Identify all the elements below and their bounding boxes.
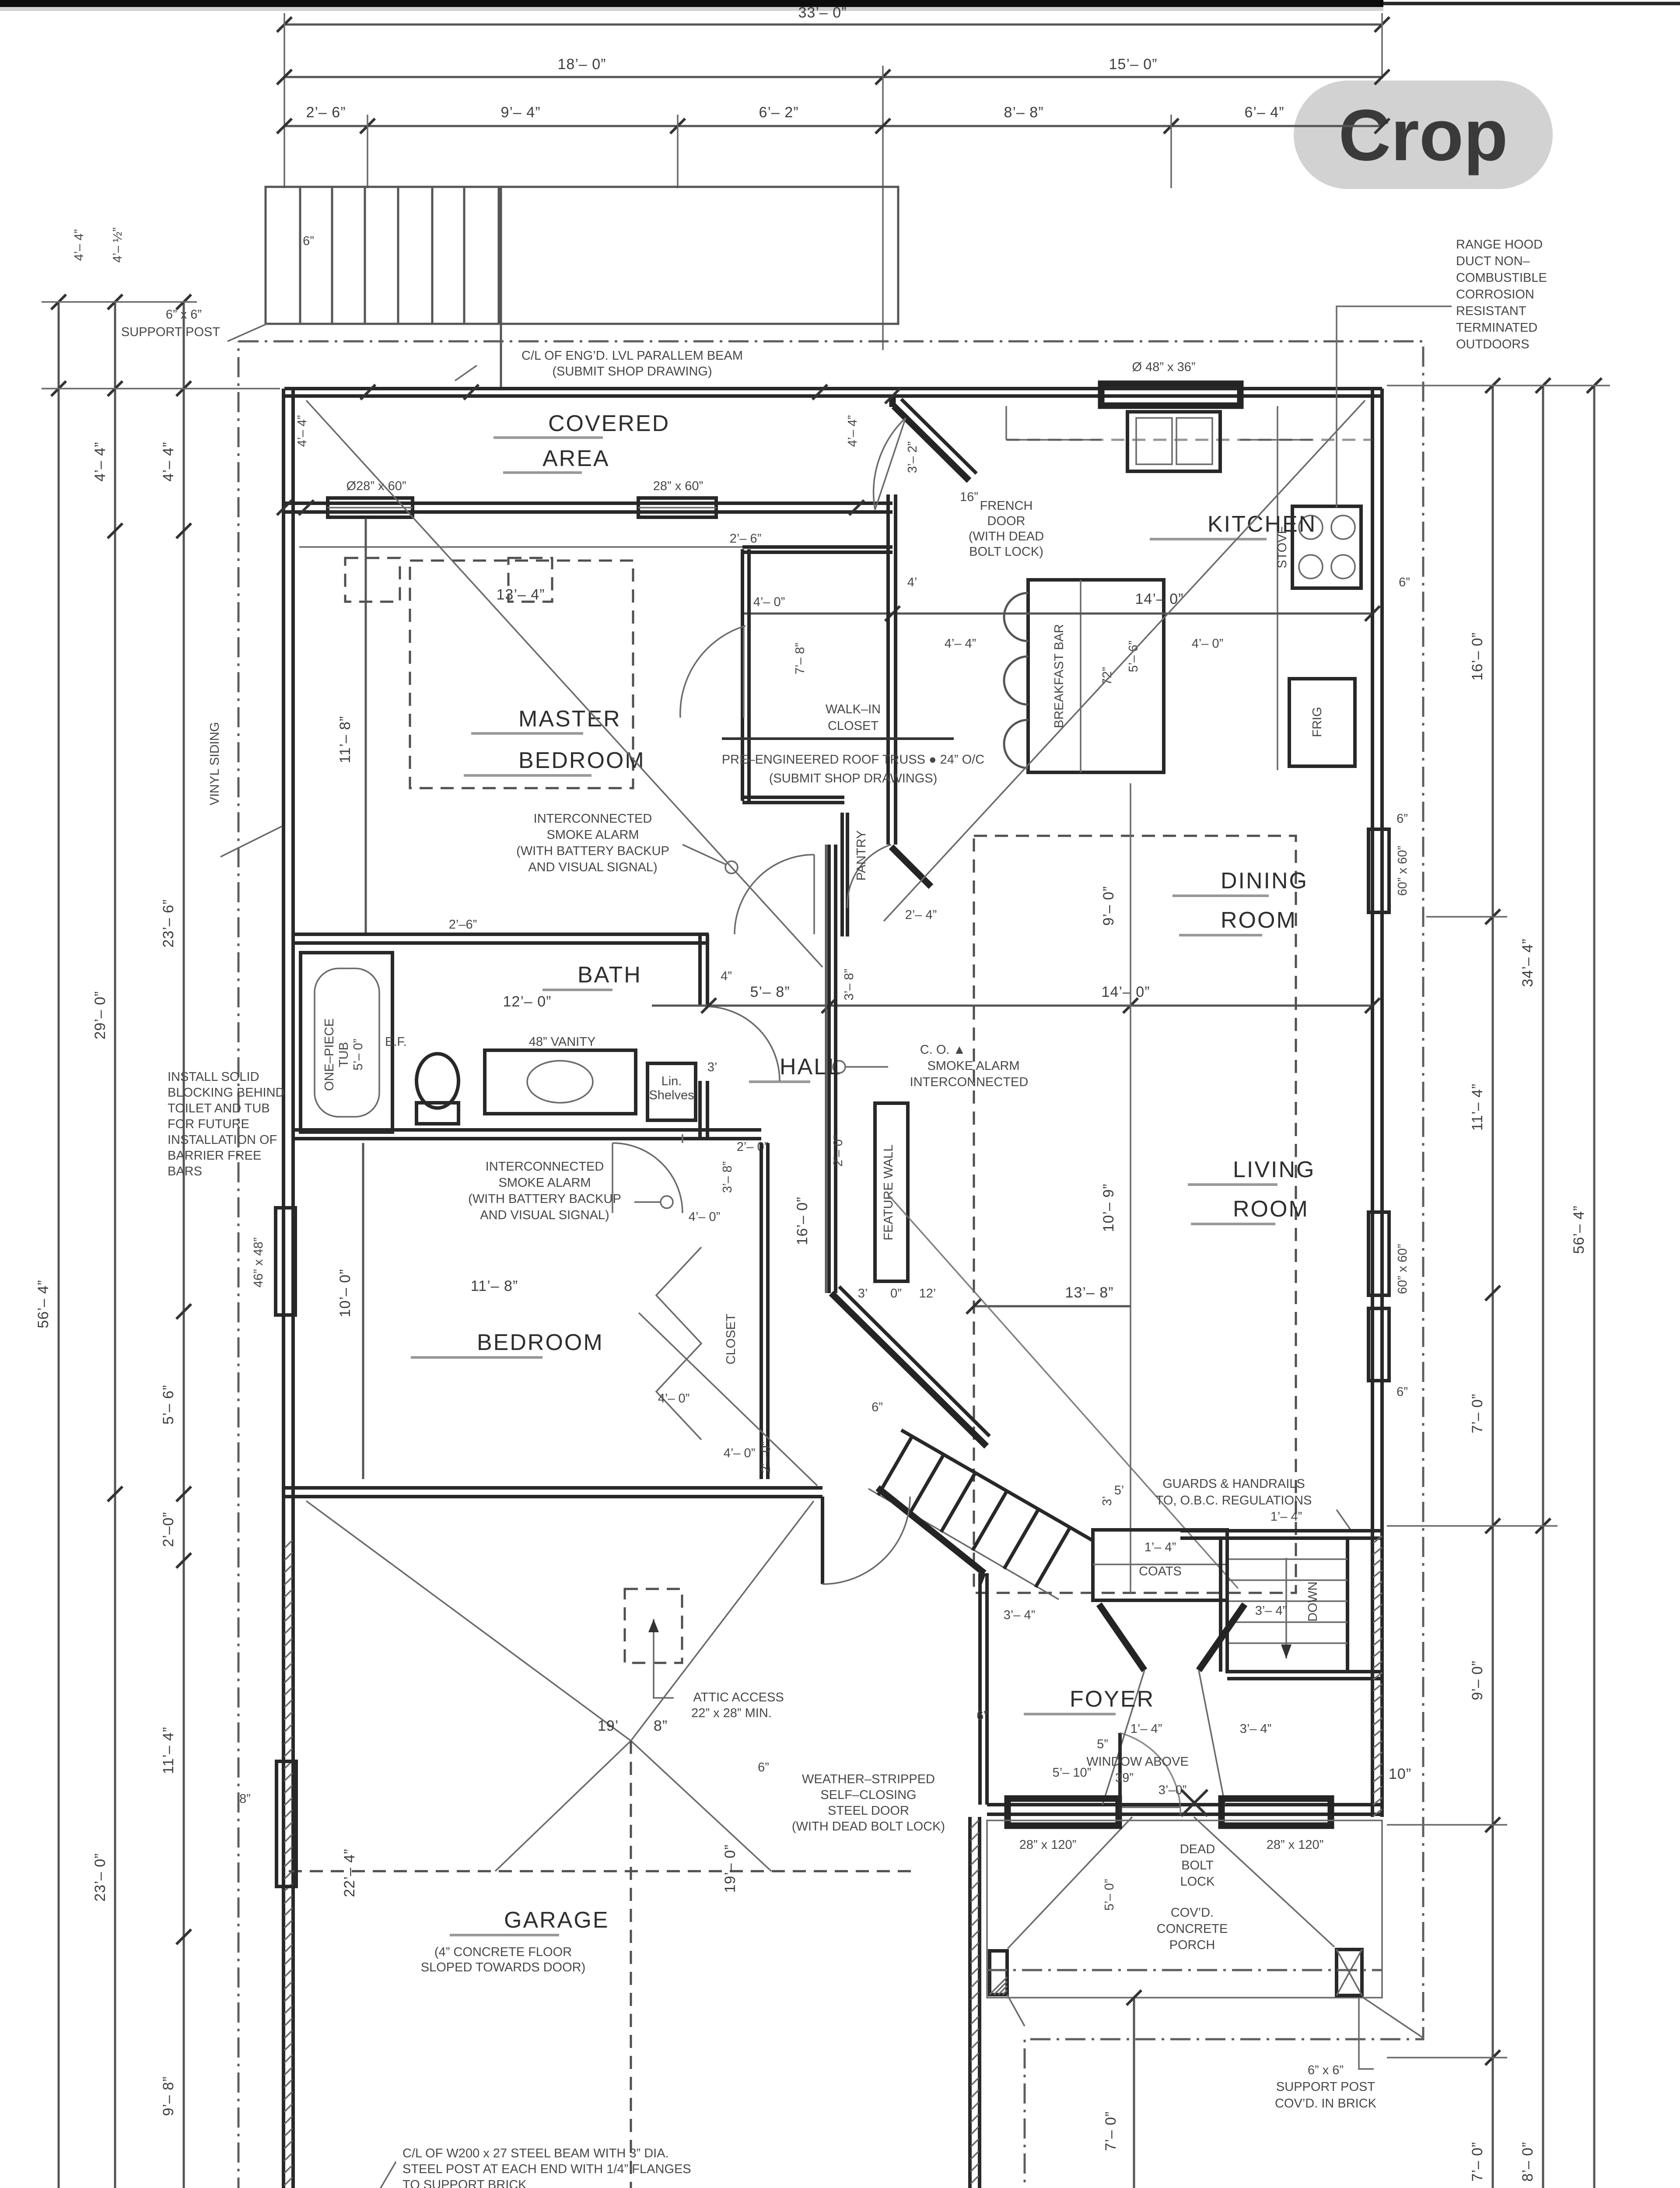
front door xyxy=(1119,1806,1180,1808)
kitchen west wall xyxy=(886,494,890,845)
svg-text:DOWN: DOWN xyxy=(1306,1581,1320,1622)
svg-text:3’– 8”: 3’– 8” xyxy=(721,1161,735,1193)
top dimension line segments xyxy=(284,125,1382,127)
svg-text:4’– 0”: 4’– 0” xyxy=(658,1392,690,1406)
lower face line below covered wall xyxy=(299,546,749,548)
smoke alarm bedroom xyxy=(661,1196,673,1208)
brick hatch garage east wall xyxy=(971,1820,979,1828)
svg-text:6’– 2”: 6’– 2” xyxy=(759,104,798,121)
svg-text:28” x 120”: 28” x 120” xyxy=(1019,1838,1077,1852)
svg-text:4’– 4”: 4’– 4” xyxy=(92,442,108,481)
svg-text:3’– 4”: 3’– 4” xyxy=(1004,1608,1036,1622)
svg-text:INSTALLATION OF: INSTALLATION OF xyxy=(168,1133,277,1147)
svg-text:11’– 4”: 11’– 4” xyxy=(160,1727,177,1774)
svg-text:2’– 0”: 2’– 0” xyxy=(759,1441,773,1473)
svg-text:BARRIER FREE: BARRIER FREE xyxy=(168,1149,261,1163)
svg-text:COVERED: COVERED xyxy=(548,411,670,436)
svg-text:2’– 0”: 2’– 0” xyxy=(737,1140,769,1154)
top exterior wall xyxy=(284,387,1382,390)
svg-text:C/L OF ENG’D. LVL PARALLEM BEA: C/L OF ENG’D. LVL PARALLEM BEAM xyxy=(521,349,743,363)
foyer angled walls xyxy=(1099,1604,1144,1670)
svg-text:6”: 6” xyxy=(1396,1385,1408,1399)
svg-text:ONE–PIECE: ONE–PIECE xyxy=(322,1018,336,1091)
foyer sight diagonals xyxy=(1008,1817,1132,1949)
svg-text:16’– 0”: 16’– 0” xyxy=(794,1197,811,1245)
bath south wall xyxy=(293,1128,761,1132)
svg-text:STEEL POST AT EACH END WITH 1/: STEEL POST AT EACH END WITH 1/4” FLANGES xyxy=(402,2162,691,2176)
svg-text:DUCT NON–: DUCT NON– xyxy=(1456,254,1530,268)
svg-text:Lin.: Lin. xyxy=(661,1074,682,1088)
foyer west wall xyxy=(978,1573,982,1805)
landing wall south of stairs xyxy=(1227,1670,1382,1673)
top black bar xyxy=(0,0,1383,7)
svg-text:6”: 6” xyxy=(303,234,314,248)
svg-text:19’: 19’ xyxy=(598,1718,619,1734)
svg-text:TO SUPPORT BRICK: TO SUPPORT BRICK xyxy=(402,2178,527,2188)
left dim chain C xyxy=(183,302,185,2188)
porch dashdot xyxy=(987,1969,1382,1971)
svg-text:BLOCKING BEHIND: BLOCKING BEHIND xyxy=(168,1086,285,1100)
svg-text:BARS: BARS xyxy=(168,1164,202,1178)
window 28x60 right xyxy=(638,498,716,517)
svg-text:CORROSION: CORROSION xyxy=(1456,288,1534,302)
14ft dim line kitchen xyxy=(744,613,1372,615)
east brick hatch foyer area xyxy=(1373,1536,1382,1816)
feature wall xyxy=(875,1103,908,1281)
svg-text:ATTIC ACCESS: ATTIC ACCESS xyxy=(693,1690,784,1704)
svg-text:2’– 6”: 2’– 6” xyxy=(730,532,762,546)
foyer front wall xyxy=(987,1803,1382,1806)
dining/living dashed ceiling xyxy=(974,836,1296,1593)
svg-text:23’– 6”: 23’– 6” xyxy=(160,899,177,948)
hall east wall xyxy=(827,845,831,1293)
13-8 dim xyxy=(974,1305,1130,1308)
svg-text:48” VANITY: 48” VANITY xyxy=(529,1035,596,1049)
bedroom closet xyxy=(759,1143,763,1479)
svg-text:SMOKE ALARM: SMOKE ALARM xyxy=(498,1176,591,1190)
svg-text:4’– 0”: 4’– 0” xyxy=(724,1446,756,1460)
svg-text:9’– 0”: 9’– 0” xyxy=(1469,1660,1486,1700)
svg-text:CONCRETE: CONCRETE xyxy=(1157,1922,1228,1936)
svg-text:22’– 4”: 22’– 4” xyxy=(341,1849,358,1897)
svg-text:4’– 0”: 4’– 0” xyxy=(1192,637,1224,651)
window above mark xyxy=(1181,1790,1207,1816)
svg-text:SELF–CLOSING: SELF–CLOSING xyxy=(820,1788,916,1802)
svg-text:46” x 48”: 46” x 48” xyxy=(252,1238,266,1287)
svg-text:DEAD: DEAD xyxy=(1180,1842,1215,1856)
svg-text:2’– 6”: 2’– 6” xyxy=(306,104,346,121)
svg-text:INTERCONNECTED: INTERCONNECTED xyxy=(486,1160,604,1174)
svg-text:15’– 0”: 15’– 0” xyxy=(1109,56,1158,73)
svg-text:5’– 10”: 5’– 10” xyxy=(1053,1766,1092,1780)
svg-text:BOLT LOCK): BOLT LOCK) xyxy=(969,545,1043,559)
svg-text:OUTDOORS: OUTDOORS xyxy=(1456,337,1529,351)
svg-text:4’– 4”: 4’– 4” xyxy=(846,415,860,447)
svg-text:29’– 0”: 29’– 0” xyxy=(92,991,108,1040)
svg-text:7’– 0”: 7’– 0” xyxy=(1469,2142,1486,2181)
svg-text:Ø28” x 60”: Ø28” x 60” xyxy=(346,479,406,493)
svg-text:3’: 3’ xyxy=(707,1060,717,1074)
svg-text:(WITH BATTERY BACKUP: (WITH BATTERY BACKUP xyxy=(516,844,669,858)
svg-text:8’– 0”: 8’– 0” xyxy=(1519,2142,1536,2181)
smoke alarm hall xyxy=(833,1061,845,1073)
dining living centerline xyxy=(1130,783,1131,1593)
covered area south wall xyxy=(284,501,892,505)
closet bifold xyxy=(656,1247,701,1440)
svg-text:2’–6”: 2’–6” xyxy=(449,918,477,932)
svg-text:LOCK: LOCK xyxy=(1180,1875,1215,1889)
roof truss note xyxy=(722,737,954,740)
svg-text:RANGE HOOD: RANGE HOOD xyxy=(1456,238,1543,252)
svg-text:4’– ½”: 4’– ½” xyxy=(111,228,125,263)
svg-text:8”: 8” xyxy=(239,1792,251,1806)
svg-text:39”: 39” xyxy=(1115,1771,1134,1785)
svg-text:1’– 4”: 1’– 4” xyxy=(1144,1540,1176,1554)
bedroom window left wall xyxy=(276,1208,295,1315)
svg-text:8”: 8” xyxy=(654,1718,668,1734)
svg-text:0”: 0” xyxy=(890,1287,902,1301)
svg-text:6”: 6” xyxy=(1399,575,1410,589)
bedroom door xyxy=(682,1134,683,1143)
svg-text:SUPPORT POST: SUPPORT POST xyxy=(121,325,220,339)
svg-text:(WITH DEAD BOLT LOCK): (WITH DEAD BOLT LOCK) xyxy=(792,1820,945,1834)
svg-text:(SUBMIT SHOP DRAWINGS): (SUBMIT SHOP DRAWINGS) xyxy=(769,771,938,785)
svg-text:COMBUSTIBLE: COMBUSTIBLE xyxy=(1456,271,1547,285)
svg-text:72”: 72” xyxy=(1100,667,1114,685)
svg-text:28” x 60”: 28” x 60” xyxy=(653,479,703,493)
svg-text:Ø 48” x 36”: Ø 48” x 36” xyxy=(1132,360,1195,374)
stair treads xyxy=(878,1436,1070,1587)
svg-text:SUPPORT POST: SUPPORT POST xyxy=(1276,2080,1375,2094)
right exterior wall xyxy=(1371,389,1374,1817)
pantry xyxy=(840,813,844,936)
svg-text:12’: 12’ xyxy=(919,1287,936,1301)
left exterior wall xyxy=(282,389,285,2188)
porch 7-0 dim xyxy=(1133,1998,1135,2188)
svg-text:SLOPED TOWARDS DOOR): SLOPED TOWARDS DOOR) xyxy=(421,1960,586,1974)
svg-text:5’– 0”: 5’– 0” xyxy=(1102,1879,1116,1911)
svg-text:3’: 3’ xyxy=(858,1287,868,1301)
svg-text:16”: 16” xyxy=(960,490,978,504)
svg-text:TUB: TUB xyxy=(337,1042,351,1067)
top dimension line 33ft xyxy=(284,24,1382,26)
living south wall xyxy=(1180,1529,1382,1532)
svg-text:GUARDS & HANDRAILS: GUARDS & HANDRAILS xyxy=(1162,1477,1305,1491)
svg-text:1’– 4”: 1’– 4” xyxy=(1270,1510,1302,1524)
svg-text:AREA: AREA xyxy=(542,446,610,471)
svg-text:4’– 0”: 4’– 0” xyxy=(753,595,785,609)
svg-text:1’– 4”: 1’– 4” xyxy=(1130,1722,1162,1736)
porch below diagonals xyxy=(1362,1997,1423,2038)
kitchen counter north xyxy=(1005,406,1007,440)
right dim chain D xyxy=(1492,386,1494,2188)
svg-text:6”: 6” xyxy=(1396,812,1408,826)
roof overhang outline xyxy=(238,341,1423,2188)
svg-text:SMOKE ALARM: SMOKE ALARM xyxy=(546,828,639,842)
svg-text:9’– 4”: 9’– 4” xyxy=(500,104,540,121)
svg-text:6” x 6”: 6” x 6” xyxy=(1308,2063,1344,2077)
svg-text:2’– 0”: 2’– 0” xyxy=(831,1135,845,1167)
svg-text:34’– 4”: 34’– 4” xyxy=(1519,939,1536,987)
DN stairs xyxy=(1227,1538,1347,1672)
svg-text:60” x 60”: 60” x 60” xyxy=(1396,1244,1410,1294)
svg-text:BOLT: BOLT xyxy=(1181,1858,1214,1872)
svg-text:18’– 0”: 18’– 0” xyxy=(558,56,606,73)
svg-text:KITCHEN: KITCHEN xyxy=(1207,512,1316,537)
svg-text:TO, O.B.C. REGULATIONS: TO, O.B.C. REGULATIONS xyxy=(1156,1494,1312,1508)
fridge xyxy=(1289,679,1355,766)
tub xyxy=(301,953,392,1132)
master door xyxy=(735,855,814,934)
master south wall / bath north xyxy=(293,933,709,936)
svg-text:(4” CONCRETE FLOOR: (4” CONCRETE FLOOR xyxy=(434,1945,572,1959)
svg-text:WINDOW ABOVE: WINDOW ABOVE xyxy=(1086,1755,1189,1769)
svg-text:28” x 120”: 28” x 120” xyxy=(1267,1838,1324,1852)
angled hall/stair wall xyxy=(831,1293,987,1446)
svg-text:2’–0”: 2’–0” xyxy=(160,1512,177,1547)
porch slab xyxy=(987,1820,1382,1998)
svg-text:4’– 0”: 4’– 0” xyxy=(689,1210,721,1224)
svg-text:3’– 2”: 3’– 2” xyxy=(906,442,920,473)
svg-text:11’– 8”: 11’– 8” xyxy=(471,1278,518,1294)
svg-text:TOILET AND TUB: TOILET AND TUB xyxy=(168,1101,270,1115)
svg-text:8’– 8”: 8’– 8” xyxy=(1004,104,1043,121)
svg-text:7’– 0”: 7’– 0” xyxy=(1469,1393,1486,1433)
svg-text:C. O. ▲: C. O. ▲ xyxy=(920,1043,966,1057)
svg-text:AND VISUAL SIGNAL): AND VISUAL SIGNAL) xyxy=(528,860,657,874)
wic door xyxy=(743,626,745,718)
svg-text:10’– 0”: 10’– 0” xyxy=(337,1269,353,1318)
svg-text:10”: 10” xyxy=(1389,1766,1411,1782)
svg-text:11’– 4”: 11’– 4” xyxy=(1469,1083,1486,1131)
svg-text:14’– 0”: 14’– 0” xyxy=(1102,984,1150,1000)
svg-text:23’– 0”: 23’– 0” xyxy=(92,1853,108,1902)
svg-text:COV’D. IN BRICK: COV’D. IN BRICK xyxy=(1275,2097,1377,2111)
svg-text:5’– 6”: 5’– 6” xyxy=(160,1385,177,1424)
misc small ticks and labels xyxy=(277,500,292,515)
kitchen sink xyxy=(1127,412,1220,471)
svg-text:WEATHER–STRIPPED: WEATHER–STRIPPED xyxy=(802,1772,935,1786)
svg-text:(WITH BATTERY BACKUP: (WITH BATTERY BACKUP xyxy=(468,1192,621,1206)
main diagonal sightlines xyxy=(306,400,822,967)
kitchen east counter edge xyxy=(1277,406,1278,770)
svg-text:16’– 0”: 16’– 0” xyxy=(1469,632,1486,681)
garage window left wall xyxy=(276,1761,296,1886)
svg-text:9’– 0”: 9’– 0” xyxy=(1100,886,1117,926)
svg-text:4’– 4”: 4’– 4” xyxy=(160,442,177,481)
right chain extensions xyxy=(1387,385,1610,386)
svg-text:DOOR: DOOR xyxy=(987,514,1025,528)
walk-in closet xyxy=(741,549,744,801)
left chain top extension xyxy=(42,301,197,303)
svg-text:7’– 8”: 7’– 8” xyxy=(793,643,807,675)
svg-text:AND VISUAL SIGNAL): AND VISUAL SIGNAL) xyxy=(480,1208,609,1222)
svg-text:BEDROOM: BEDROOM xyxy=(477,1330,604,1355)
svg-text:6”: 6” xyxy=(976,1709,988,1723)
right dim chain E xyxy=(1542,386,1544,2188)
svg-text:4’: 4’ xyxy=(907,575,917,589)
svg-text:MASTER: MASTER xyxy=(518,706,621,732)
svg-text:4’– 4”: 4’– 4” xyxy=(945,637,976,651)
east windows xyxy=(1368,829,1389,912)
stair lower edge wall xyxy=(878,1488,984,1573)
vanity xyxy=(485,1050,636,1114)
svg-text:DINING: DINING xyxy=(1221,868,1308,894)
svg-text:10’– 9”: 10’– 9” xyxy=(1100,1184,1117,1232)
svg-text:19’– 0”: 19’– 0” xyxy=(722,1844,738,1893)
svg-text:FRIG: FRIG xyxy=(1310,707,1324,737)
french door arc xyxy=(874,418,906,510)
porch posts xyxy=(990,1951,1007,1995)
svg-text:3’– 4”: 3’– 4” xyxy=(1255,1604,1287,1618)
hall 16-0 dim xyxy=(825,845,827,1293)
svg-text:LIVING: LIVING xyxy=(1233,1157,1316,1182)
french door stub + angled wall xyxy=(889,396,896,407)
svg-text:13’– 4”: 13’– 4” xyxy=(497,586,545,603)
front windows xyxy=(1008,1799,1119,1826)
svg-text:FOR FUTURE: FOR FUTURE xyxy=(168,1117,249,1131)
svg-text:INTERCONNECTED: INTERCONNECTED xyxy=(534,812,652,826)
svg-text:BREAKFAST BAR: BREAKFAST BAR xyxy=(1052,624,1066,728)
rear deck xyxy=(266,187,898,324)
svg-text:9’– 8”: 9’– 8” xyxy=(160,2076,177,2116)
bath door xyxy=(705,1006,780,1081)
hall 5-8 dim line xyxy=(652,1005,1372,1007)
svg-text:INTERCONNECTED: INTERCONNECTED xyxy=(910,1075,1029,1089)
svg-text:5’– 8”: 5’– 8” xyxy=(750,984,790,1000)
svg-text:COV’D.: COV’D. xyxy=(1171,1906,1214,1920)
svg-text:Shelves: Shelves xyxy=(649,1088,694,1102)
wall ticks covered area xyxy=(360,385,375,400)
svg-text:FOYER: FOYER xyxy=(1070,1687,1155,1712)
toilet xyxy=(416,1054,458,1108)
stair flight diagonal xyxy=(901,1430,1092,1540)
window 28x60 left xyxy=(328,498,413,517)
svg-text:BATH: BATH xyxy=(577,962,642,988)
svg-text:FRENCH: FRENCH xyxy=(980,499,1033,513)
svg-text:56’– 4”: 56’– 4” xyxy=(1571,1206,1587,1254)
svg-text:5”: 5” xyxy=(1097,1737,1108,1751)
kitchen sink window 48x36 xyxy=(1101,384,1240,406)
svg-text:TERMINATED: TERMINATED xyxy=(1456,321,1537,335)
svg-text:56’– 4”: 56’– 4” xyxy=(35,1280,52,1329)
svg-text:VINYL SIDING: VINYL SIDING xyxy=(208,722,222,806)
coats closet xyxy=(1093,1530,1227,1600)
garage man door xyxy=(821,1497,824,1584)
right dim chain F xyxy=(1593,386,1596,2188)
svg-text:CLOSET: CLOSET xyxy=(828,719,878,733)
bath east wall xyxy=(698,934,702,1006)
garage diagonals xyxy=(306,1501,631,1741)
svg-text:(WITH DEAD: (WITH DEAD xyxy=(969,529,1044,543)
svg-text:6’– 4”: 6’– 4” xyxy=(1244,104,1284,121)
svg-text:PANTRY: PANTRY xyxy=(854,831,868,881)
top dimension line 18ft / 15ft xyxy=(284,76,1382,78)
svg-text:6”: 6” xyxy=(871,1400,883,1414)
left dim chain A xyxy=(58,302,60,2188)
svg-text:12’– 0”: 12’– 0” xyxy=(503,993,552,1010)
bedroom south wall / garage north xyxy=(284,1486,822,1490)
svg-text:7’– 0”: 7’– 0” xyxy=(1102,2111,1119,2151)
smoke alarm master xyxy=(725,861,738,873)
stove xyxy=(1292,506,1361,588)
svg-text:33’– 0”: 33’– 0” xyxy=(798,4,847,21)
svg-text:5’: 5’ xyxy=(1114,1483,1124,1497)
svg-text:2’– 4”: 2’– 4” xyxy=(905,908,937,922)
svg-text:6”: 6” xyxy=(758,1760,769,1774)
svg-text:4’– 4”: 4’– 4” xyxy=(295,415,309,447)
svg-text:60” x 60”: 60” x 60” xyxy=(1396,846,1410,896)
svg-text:C/L OF W200 x 27 STEEL BEAM WI: C/L OF W200 x 27 STEEL BEAM WITH 3” DIA. xyxy=(402,2146,669,2160)
svg-text:RESISTANT: RESISTANT xyxy=(1456,304,1526,318)
svg-text:GARAGE: GARAGE xyxy=(504,1907,609,1933)
svg-text:WALK–IN: WALK–IN xyxy=(826,702,881,716)
dashed header boxes xyxy=(345,558,400,602)
breakfast bar xyxy=(1028,580,1164,772)
attic access xyxy=(625,1589,682,1663)
svg-text:INSTALL SOLID: INSTALL SOLID xyxy=(168,1070,259,1084)
svg-text:ROOM: ROOM xyxy=(1221,908,1297,933)
svg-text:4”: 4” xyxy=(721,969,732,983)
svg-text:ROOM: ROOM xyxy=(1233,1196,1309,1222)
garage east brick wall xyxy=(968,1817,972,2188)
svg-text:3’– 8”: 3’– 8” xyxy=(842,969,856,1001)
svg-text:22” x 28” MIN.: 22” x 28” MIN. xyxy=(691,1706,772,1720)
svg-text:13’– 8”: 13’– 8” xyxy=(1065,1284,1114,1301)
svg-text:E.F.: E.F. xyxy=(385,1035,407,1049)
svg-text:3’– 4”: 3’– 4” xyxy=(1240,1722,1272,1736)
svg-text:(SUBMIT SHOP DRAWING): (SUBMIT SHOP DRAWING) xyxy=(552,365,712,379)
svg-text:FEATURE WALL: FEATURE WALL xyxy=(882,1144,896,1240)
deck stairs xyxy=(299,187,301,324)
master bedroom ceiling dashed xyxy=(410,561,633,788)
range hood leader xyxy=(1337,306,1452,508)
crop button xyxy=(1294,81,1553,189)
svg-text:3’: 3’ xyxy=(1100,1496,1114,1506)
brick hatch left wall xyxy=(284,1540,292,1548)
svg-text:PORCH: PORCH xyxy=(1169,1938,1215,1952)
left dim chain B xyxy=(114,302,116,2188)
svg-text:Crop: Crop xyxy=(1338,95,1508,176)
svg-text:STEEL DOOR: STEEL DOOR xyxy=(828,1804,909,1818)
svg-text:4’– 4”: 4’– 4” xyxy=(72,229,86,261)
svg-text:PRE–ENGINEERED ROOF TRUSS ● 24: PRE–ENGINEERED ROOF TRUSS ● 24” O/C xyxy=(722,753,984,767)
master 11-8 dim xyxy=(365,519,367,934)
svg-text:11’– 8”: 11’– 8” xyxy=(337,716,353,763)
svg-text:COATS: COATS xyxy=(1139,1564,1182,1578)
svg-text:CLOSET: CLOSET xyxy=(724,1314,738,1364)
linen xyxy=(647,1063,696,1120)
svg-text:5’– 0”: 5’– 0” xyxy=(351,1039,365,1071)
